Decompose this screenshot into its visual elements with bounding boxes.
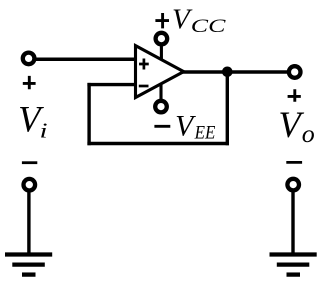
op-amp U1 (triangle) xyxy=(136,46,184,98)
wire: feedback bottom run xyxy=(87,142,229,145)
output terminal (open circle, Vo+) xyxy=(289,66,301,78)
ground (left) xyxy=(5,255,52,275)
svg-text:V: V xyxy=(175,110,196,142)
svg-text:o: o xyxy=(302,119,315,148)
left lower terminal (open circle, Vi-) xyxy=(24,179,36,191)
wire: op-amp output to output terminal xyxy=(183,70,290,74)
wire: feedback to inverting input xyxy=(87,83,137,86)
svg-text:i: i xyxy=(40,118,48,142)
label - (Vi minus) xyxy=(22,161,37,164)
wire: feedback drop from output node xyxy=(226,72,229,145)
op-amp + input marking xyxy=(139,59,149,70)
wire: VCC stub xyxy=(160,46,163,61)
label + VCC xyxy=(155,13,169,28)
right lower terminal (open circle, Vo-) xyxy=(287,179,299,191)
wire: right terminal to ground xyxy=(291,191,294,254)
svg-text:V: V xyxy=(278,104,304,145)
input terminal (open circle, Vi+) xyxy=(23,53,35,65)
VCC terminal (open circle) xyxy=(156,33,168,45)
wire: left terminal to ground xyxy=(27,191,30,254)
ground (right) xyxy=(270,255,317,275)
wire: feedback left rise xyxy=(87,83,90,145)
op-amp - input marking xyxy=(139,85,149,88)
label + (Vo plus) xyxy=(288,89,301,102)
svg-text:EE: EE xyxy=(194,121,216,142)
VEE terminal (open circle) xyxy=(155,101,167,113)
label - (Vo minus) xyxy=(286,161,302,164)
label + (Vi plus) xyxy=(23,76,36,89)
wire: input terminal to op-amp non-inverting input xyxy=(35,57,138,61)
label - VEE xyxy=(154,125,170,128)
wire: VEE stub xyxy=(159,83,162,101)
node junction dot at output xyxy=(222,67,233,78)
svg-text:CC: CC xyxy=(191,15,226,36)
